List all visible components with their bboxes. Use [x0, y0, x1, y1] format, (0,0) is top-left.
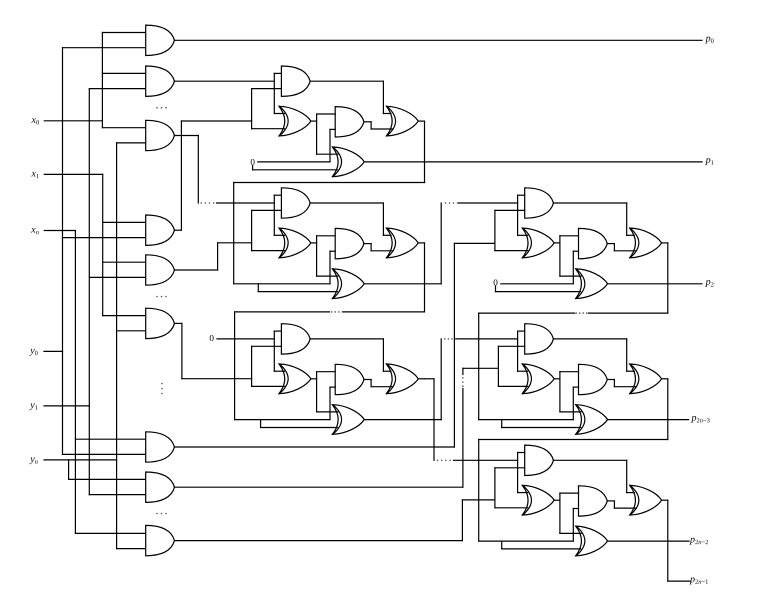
xor gate A-XOR1	[279, 106, 311, 136]
wire p2n-1 carry	[667, 500, 669, 581]
svg-text:0: 0	[209, 333, 214, 343]
and gate C-AND1	[281, 324, 310, 354]
or gate C-OR3	[387, 364, 419, 394]
wire x0 entry	[44, 120, 102, 122]
wire net y0 vertical	[62, 48, 64, 455]
or gate F-OR3	[630, 485, 662, 515]
wire p2 line	[607, 283, 702, 285]
wire F cin to AND2	[572, 509, 574, 542]
input label x0	[30, 115, 39, 127]
wire G2 input a	[102, 72, 145, 74]
or gate A-OR3	[387, 106, 419, 136]
wire y0 entry	[44, 350, 63, 352]
wire E cin to AND2	[572, 387, 574, 420]
dots between G2 and G3	[156, 107, 158, 109]
and gate C-AND2	[335, 364, 364, 394]
wire p0 line	[174, 39, 702, 41]
wire y1 entry	[44, 405, 89, 407]
wire p2n-3 line	[607, 419, 688, 421]
and gate G3	[146, 120, 175, 150]
wire A and2 out	[364, 121, 371, 123]
wire F carry out stub	[662, 499, 668, 501]
wire A carry out stub	[418, 120, 424, 122]
wire A cin branch1	[258, 161, 330, 163]
wire net yn vertical	[116, 143, 118, 549]
wire C a fan	[273, 331, 275, 371]
wire G9 input b	[117, 548, 146, 550]
wire G9 input a	[75, 532, 145, 534]
and gate G5	[146, 255, 175, 285]
wire D and1 out	[553, 202, 626, 204]
wire D xor1 out	[554, 242, 560, 244]
wire C carry out stub	[418, 378, 424, 380]
wire x1 entry	[44, 173, 102, 175]
and gate E-AND2	[579, 364, 608, 394]
wire F cin branch2	[501, 541, 503, 549]
wire B cin to AND2	[329, 251, 331, 284]
wire F b fan	[494, 468, 496, 508]
wire B xor1 out	[311, 242, 317, 244]
wire net x1 vertical	[102, 174, 104, 315]
xor gate E-XOR2	[576, 405, 608, 435]
wire G5 out to B.b	[174, 269, 217, 271]
and gate G8	[146, 472, 175, 502]
and gate G1	[146, 25, 175, 55]
output label p1	[705, 155, 714, 167]
wire G7 input b	[63, 453, 146, 455]
wire G2 out to A.a	[174, 80, 274, 82]
or gate E-OR3	[630, 364, 662, 394]
constant 0 label C	[209, 333, 214, 343]
wire net yn branch	[68, 460, 70, 480]
wire F and2 out	[607, 500, 614, 502]
output label p0	[705, 33, 714, 45]
or gate B-OR3	[387, 228, 419, 258]
xor gate B-XOR2	[333, 269, 365, 299]
input label xn	[30, 225, 39, 237]
wire net x0 vertical	[101, 33, 103, 128]
wire G6 input a	[103, 315, 146, 317]
wire G9 out to F.b	[174, 540, 462, 542]
wire B and1 out	[310, 202, 383, 204]
wire E b fan	[497, 346, 499, 386]
wire G8 out to E.b	[174, 486, 463, 488]
wire G5 input a	[103, 261, 146, 263]
input label y1	[29, 400, 38, 412]
wire A xor1 out	[311, 120, 317, 122]
xor gate C-XOR2	[333, 405, 365, 435]
wire net xn vertical	[74, 231, 76, 534]
xor gate D-XOR1	[523, 228, 555, 258]
xor gate B-XOR1	[279, 228, 311, 258]
wire D carry to E cin	[667, 243, 669, 313]
and gate A-AND2	[335, 107, 364, 137]
output label p2n-2	[689, 534, 708, 546]
output label p2n-1	[689, 574, 708, 586]
wire G4 input a	[103, 221, 146, 223]
dots between G8 and G9	[156, 513, 158, 515]
or gate D-OR3	[630, 228, 662, 258]
wire G3 input a	[102, 127, 145, 129]
dots on G8-E.b wire	[462, 377, 464, 379]
wire E xor1 out	[554, 378, 560, 380]
wire D and2 out	[607, 243, 614, 245]
wire E and1 out	[553, 338, 626, 340]
wire G3 out to B.a	[174, 135, 198, 137]
wire G2 input b	[89, 88, 145, 90]
wire xn entry	[44, 230, 75, 232]
wire C and2 out	[364, 379, 371, 381]
and gate B-AND2	[335, 228, 364, 258]
wire yn entry	[44, 459, 117, 461]
wire F xor1 out	[554, 499, 560, 501]
wire B and2 out	[364, 243, 371, 245]
and gate A-AND1	[281, 66, 310, 96]
wire F and1 out	[553, 459, 626, 461]
input label x1	[30, 168, 39, 180]
input label y0	[29, 345, 38, 357]
wire B carry out stub	[418, 242, 424, 244]
wire G1 input b	[63, 47, 146, 49]
wire G8 input a	[69, 478, 146, 480]
dots between G5 and G6	[156, 296, 158, 298]
constant 0 label D	[493, 278, 498, 288]
wire D cin branch1	[501, 283, 574, 285]
wire G4 out to A.b	[174, 229, 181, 231]
wire D cin branch2	[495, 286, 497, 292]
wire A b fan	[251, 89, 253, 129]
wire C xor1 out	[311, 378, 317, 380]
wire C.a from 0	[217, 338, 274, 340]
wire A cin branch2	[252, 166, 254, 170]
wire B cin branch2	[257, 284, 259, 292]
input label yn	[29, 454, 38, 466]
wire C cin branch2	[260, 420, 262, 428]
dots between G6 and G7	[161, 383, 163, 385]
wire B b fan	[251, 210, 253, 250]
wire C b fan	[251, 346, 253, 386]
and gate G4	[146, 215, 175, 245]
and gate G7	[146, 432, 175, 462]
wire C sum to E.a	[364, 419, 441, 421]
wire G6 input b	[117, 330, 146, 332]
wire E carry to F cin	[667, 379, 669, 440]
and gate G9	[146, 525, 175, 555]
wire D b fan	[494, 210, 496, 250]
wire D cin to AND2	[572, 251, 574, 284]
wire A and1 out	[310, 80, 383, 82]
and gate F-AND1	[525, 445, 554, 475]
and gate G2	[146, 66, 175, 96]
wire F a fan	[517, 453, 519, 493]
xor gate F-XOR2	[576, 526, 608, 556]
constant 0 label A	[250, 157, 255, 167]
wire B sum to D.a	[364, 283, 441, 285]
wire p1 line	[364, 161, 702, 163]
wire C and1 out	[310, 338, 383, 340]
wire E a fan	[517, 331, 519, 371]
and gate E-AND1	[525, 324, 554, 354]
wire E carry out stub	[662, 378, 668, 380]
xor gate C-XOR1	[279, 364, 311, 394]
wire G4 input b	[63, 237, 146, 239]
wire D a fan	[517, 195, 519, 235]
wire G6 out to C.b	[174, 322, 182, 324]
wire G8 input b	[89, 494, 145, 496]
dots on E.a wire	[444, 338, 446, 340]
xor gate F-XOR1	[523, 485, 555, 515]
and gate D-AND2	[579, 228, 608, 258]
wire C carry to F.a	[425, 378, 435, 380]
dots on B-C carry wire	[331, 311, 333, 313]
dots on F.a wire	[437, 460, 439, 462]
output label p2n-3	[690, 413, 709, 425]
wire p2n-2 line	[607, 540, 689, 542]
wire G3 input b	[117, 142, 146, 144]
wire net y1 vertical	[88, 89, 90, 495]
dots on B.a wire	[201, 202, 203, 204]
dots on D-E carry wire	[575, 312, 577, 314]
wire C cin to AND2	[329, 387, 331, 420]
wire A carry to B cin	[424, 121, 426, 182]
and gate D-AND1	[525, 188, 554, 218]
wire E and2 out	[607, 379, 614, 381]
wire G7 out to D.b	[174, 446, 454, 448]
dots on D.a wire	[445, 202, 447, 204]
wire G1 input a	[102, 32, 145, 34]
wire B a fan	[273, 195, 275, 235]
wire G7 input a	[75, 438, 145, 440]
wire D carry out stub	[662, 242, 668, 244]
wire G5 input b	[89, 276, 145, 278]
wire A cin to AND2	[329, 129, 331, 162]
wire A a fan	[273, 73, 275, 113]
and gate B-AND1	[281, 188, 310, 218]
wire B carry to C cin	[424, 243, 426, 312]
xor gate D-XOR2	[576, 269, 608, 299]
and gate G6	[146, 308, 175, 338]
and gate F-AND2	[579, 486, 608, 516]
output label p2	[705, 277, 714, 289]
xor gate E-XOR1	[523, 364, 555, 394]
xor gate A-XOR2	[333, 147, 365, 177]
wire E cin branch2	[501, 420, 503, 428]
